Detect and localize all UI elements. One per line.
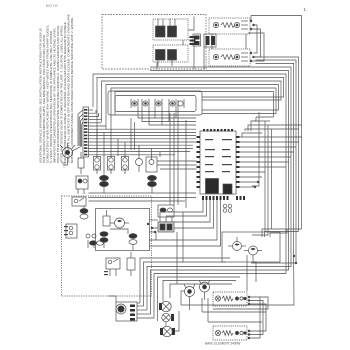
U1 bottom pin row	[202, 196, 229, 200]
lock switch S7	[64, 224, 77, 238]
power cord plug P1	[60, 143, 75, 158]
wire fan drop W5	[253, 255, 256, 282]
wire switch drop V8	[159, 152, 161, 157]
door lock motor M1	[80, 206, 88, 219]
wire lamp drop A	[138, 108, 196, 118]
node E6 J12	[248, 296, 250, 298]
node E7 J16	[248, 334, 250, 336]
oven lamp L2	[162, 313, 174, 321]
connector P6	[223, 204, 232, 212]
wire SU bracket 2	[251, 29, 261, 57]
relay K3	[156, 50, 166, 67]
wire L1 to bus	[251, 16, 302, 61]
wire lamp drop D	[154, 108, 156, 118]
svg-text:HOT SURFACES AND MOVING PARTS.: HOT SURFACES AND MOVING PARTS. SEE MINI-…	[42, 34, 46, 163]
wire drop D1	[242, 133, 262, 137]
relay K2	[168, 19, 177, 37]
wire TB feed	[108, 296, 116, 302]
wire cross riser X4	[176, 232, 178, 284]
relay K3K4 dashed box	[153, 45, 188, 62]
wire riser R1	[262, 229, 302, 237]
lamp DS1	[131, 99, 138, 108]
wire left drop W22	[207, 298, 209, 322]
latch element E3	[90, 241, 104, 245]
wire lamp drop W13	[170, 284, 232, 298]
wire drop D3	[252, 125, 268, 235]
wire lamp drop E	[161, 108, 163, 125]
U1 labels	[205, 139, 232, 172]
wire switch drop V5	[124, 142, 126, 150]
wire bus B6	[97, 77, 284, 150]
wire cross riser X5	[182, 212, 184, 262]
wire mid M2	[89, 197, 197, 199]
relay K1 dashed box	[153, 19, 188, 40]
switch S3	[108, 150, 115, 174]
wire plug to bundle	[72, 146, 82, 151]
node E6 J13	[248, 300, 250, 302]
lower oven dashed box	[62, 196, 152, 296]
lamp DS3	[155, 99, 162, 108]
connector P5 pin strip	[83, 107, 89, 157]
bake element dashed box	[213, 292, 247, 306]
wire mid M1	[89, 192, 197, 194]
wire switch drop V4	[117, 139, 119, 156]
wire drop D5	[271, 129, 273, 229]
node mid J20	[154, 231, 156, 233]
wire drop bundle W9	[151, 270, 211, 314]
wire cross riser X3	[177, 100, 179, 205]
svg-text:SHOWN WITH ALL SWITCHES IN OFF: SHOWN WITH ALL SWITCHES IN OFF POSITION …	[67, 14, 71, 163]
wire band W23	[130, 118, 132, 150]
U1 left pins	[197, 136, 201, 188]
indicator lamp outer box	[108, 91, 202, 115]
wire SU1 drop	[211, 34, 213, 49]
wire mid M3	[89, 200, 186, 202]
switch S2	[94, 150, 101, 174]
relay K1	[156, 19, 166, 37]
wire K link	[182, 40, 184, 45]
notes text block	[39, 14, 75, 163]
wire mid M4	[157, 160, 197, 162]
node J2	[253, 24, 255, 26]
transformer T1	[100, 175, 109, 193]
wire bus B2	[181, 63, 294, 305]
cooling fan M4	[244, 246, 262, 255]
wire bus B1b	[256, 57, 299, 232]
wire step bundle	[150, 200, 221, 246]
svg-text:AFTER ANY SERVICE WORK IS COMP: AFTER ANY SERVICE WORK IS COMPLETED ON T…	[60, 26, 64, 163]
oven lamp L3	[160, 326, 175, 336]
oven lamp L1	[159, 301, 171, 311]
relay K3	[223, 184, 232, 194]
switch S5 box	[146, 150, 157, 172]
oven fan box	[222, 232, 280, 262]
wire SU riser	[250, 16, 252, 22]
connector P2 pins	[190, 36, 196, 45]
node bus J7	[293, 255, 295, 257]
node J5	[253, 56, 255, 58]
U1 right pins	[236, 136, 240, 188]
svg-text:5. VERIFY PROPER OPERATION AFT: 5. VERIFY PROPER OPERATION AFTER SERVICI…	[49, 30, 53, 163]
wire U1 right leads	[240, 137, 303, 187]
wire element run W20	[208, 321, 262, 323]
svg-text:PRIOR TO DISCONNECTION WHEN SE: PRIOR TO DISCONNECTION WHEN SERVICING CO…	[56, 25, 60, 163]
relay block K5	[158, 222, 174, 232]
wire drop bundle W8	[147, 267, 212, 311]
wire band W24	[134, 122, 136, 150]
wire switch drop V3	[110, 136, 112, 150]
element E4	[100, 232, 108, 248]
relay block K4	[158, 205, 174, 226]
node E7 J15	[248, 330, 250, 332]
oven sensor RTD1	[127, 252, 135, 276]
wire switch drop V1	[96, 129, 98, 150]
wire drop D2	[264, 121, 266, 232]
wire bus B4	[150, 71, 289, 270]
svg-text:IMPROPER AND DANGEROUS OPERATI: IMPROPER AND DANGEROUS OPERATION OF THE …	[53, 27, 57, 163]
wire drop bundle W10	[154, 274, 208, 319]
node U1 J9	[254, 186, 256, 188]
wire bus B7	[102, 81, 282, 122]
wire fan drop W4	[246, 255, 248, 291]
svg-text:ADDITIONAL SERVICE INFORMATION: ADDITIONAL SERVICE INFORMATION. SEE INST…	[39, 28, 43, 163]
wire bus B8	[106, 85, 279, 130]
wire drop bundle W6	[140, 258, 230, 303]
door switch S9	[104, 258, 120, 276]
wire cord bundle	[78, 110, 83, 146]
wire SU bracket 3	[248, 33, 264, 61]
wire SU bracket 1	[254, 25, 258, 53]
wire lamp link	[165, 322, 167, 326]
wire mid M6	[160, 168, 197, 170]
wire drop D4	[252, 112, 259, 186]
wire element run W18	[213, 297, 268, 309]
wire center feed C3	[248, 125, 302, 131]
convection motor M2	[110, 218, 129, 228]
control board U1	[200, 131, 236, 194]
wire bus B0	[301, 60, 303, 229]
broil element dashed box	[213, 326, 247, 340]
wire harness fan	[89, 110, 197, 155]
indicator lamp inner box	[115, 96, 196, 112]
wire center feed C4	[245, 129, 299, 131]
bake motor M5	[184, 284, 195, 310]
wire cross riser X2	[173, 113, 175, 205]
wire bus B9	[111, 88, 276, 136]
wire lamp drop C	[149, 108, 196, 125]
node mid J19	[151, 227, 153, 229]
lamp DS2	[142, 99, 149, 108]
node mid J18	[147, 223, 149, 225]
wire K right drop	[193, 46, 195, 69]
wire element riser W15	[249, 297, 260, 338]
wire K right	[188, 17, 194, 31]
cooling fan M3	[228, 237, 246, 251]
transformer T3 core	[206, 179, 219, 194]
wire element run W19	[202, 311, 266, 313]
wire mid M5	[157, 164, 197, 166]
node E6 J14	[248, 303, 250, 305]
wire bus B10	[115, 92, 273, 118]
wire conv W3	[150, 232, 157, 240]
node E7 J17	[248, 337, 250, 339]
surface unit SU1 dashed box	[209, 18, 250, 34]
wire center feed C1	[251, 117, 256, 131]
wire lamp feed W14	[175, 311, 179, 331]
wire lamp drop F	[168, 108, 170, 122]
probe jack J11	[103, 210, 110, 226]
surface element E2	[213, 53, 248, 61]
control panel enclosure box	[102, 15, 206, 70]
U1 bottom pin row B	[236, 196, 245, 200]
wire switch drop V6	[138, 145, 140, 150]
broil motor M6	[199, 280, 210, 300]
node J1	[250, 20, 252, 22]
transformer T2	[148, 175, 157, 193]
node J6	[250, 60, 252, 62]
switch S4	[122, 150, 129, 174]
wire cross riser X1	[169, 113, 171, 205]
connector P5 pins	[84, 109, 87, 155]
relay K4b	[168, 50, 177, 67]
convection box	[96, 209, 150, 251]
wire conv W1	[110, 229, 128, 234]
wire center feed C2	[253, 120, 270, 122]
svg-text:N 0 7 E: N 0 7 E	[46, 4, 58, 8]
connector P4 block	[204, 34, 216, 47]
svg-text:NOTICE: 1. DISCONNECT RANGE FR: NOTICE: 1. DISCONNECT RANGE FROM POWER S…	[70, 17, 74, 163]
door switch S6	[72, 197, 86, 206]
broil element E7	[215, 330, 246, 335]
terminal block TB1	[116, 302, 137, 321]
wire switch drop V2	[103, 132, 105, 175]
lock switch S8	[86, 234, 96, 248]
wire K drop	[156, 62, 158, 69]
wire switch drop V7	[151, 148, 153, 150]
wire element riser W17	[249, 304, 266, 331]
wire bus B3	[150, 67, 291, 267]
wire motor feed	[181, 291, 185, 305]
wire TB pins	[137, 303, 154, 318]
wire riser R3	[270, 229, 287, 237]
connector P3 block	[193, 34, 201, 46]
wire element riser W16	[249, 301, 263, 335]
node J3	[250, 28, 252, 30]
surface element E1	[213, 21, 248, 29]
wire bus B1	[251, 60, 296, 263]
svg-text:VIEWED FROM REAR OF RANGE. 3.: VIEWED FROM REAR OF RANGE. 3. SERVICER: …	[63, 22, 67, 163]
wire left drop W21	[201, 298, 203, 312]
node U1 J10	[257, 181, 259, 183]
surface unit SU2 dashed box	[209, 49, 250, 66]
wire lamp drop G	[175, 108, 177, 118]
wire drop bundle W7	[144, 262, 227, 306]
element E5	[129, 234, 137, 250]
wire riser R2	[265, 232, 299, 238]
fuse F1	[78, 152, 84, 174]
svg-text:CONDUCTORS WHEN REPLACING ANY: CONDUCTORS WHEN REPLACING ANY WIRING. KE…	[46, 25, 50, 163]
wire cross riser X6	[185, 120, 187, 208]
svg-text:BAKE ELEMENT 3400W: BAKE ELEMENT 3400W	[205, 342, 240, 346]
wire conv W2	[150, 219, 159, 221]
node bus J8	[295, 262, 297, 264]
lamp DS4	[169, 99, 184, 108]
wire drop bundle W11	[158, 277, 241, 321]
wire panel drop	[203, 47, 205, 69]
wire lamp drop W12	[163, 281, 236, 302]
buzzer BZ1	[136, 150, 143, 172]
node J4	[250, 52, 252, 54]
wire bus B5	[93, 74, 286, 274]
wire SU2 drop	[245, 34, 247, 49]
bake element E6	[215, 296, 246, 301]
wire lamp drop B	[142, 108, 196, 122]
ground strap G1	[62, 158, 68, 167]
U1 top pin row	[203, 129, 233, 132]
connector DBK	[76, 176, 88, 194]
